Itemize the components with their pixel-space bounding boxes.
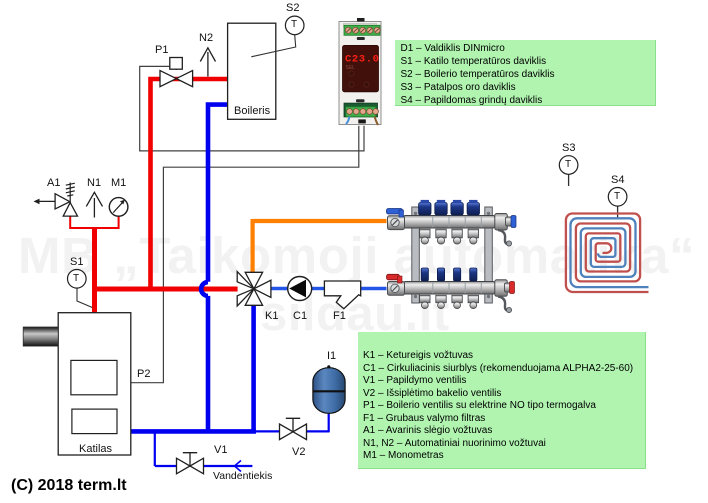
label V2 xyxy=(292,446,305,458)
pipe blue thin V1 water feed branch xyxy=(155,433,253,466)
label K1 xyxy=(265,310,278,322)
valve P1 actuator head xyxy=(170,58,183,71)
pipe blue thin to V2 and expansion tank I1 xyxy=(256,411,329,433)
safety valve A1 xyxy=(55,194,77,216)
pipe blue Boileris return down xyxy=(201,102,227,431)
floor heating loop supply (red) xyxy=(566,213,649,292)
din clip top xyxy=(357,37,365,40)
text T in S4 xyxy=(614,191,620,202)
boiler door lower xyxy=(72,409,117,434)
manometer M1 xyxy=(109,198,128,217)
pipe blue K1 drop to bottom main xyxy=(251,304,256,432)
label P2 xyxy=(137,368,150,380)
pipe red P1 riser and run to Boileris xyxy=(148,79,227,291)
sensor S1 xyxy=(68,270,87,289)
wire sensor S1 to pipe xyxy=(77,288,92,307)
label Katilas xyxy=(79,443,112,455)
display panel xyxy=(343,45,379,91)
svg-text:C23.0: C23.0 xyxy=(345,54,380,66)
right end cap / vent (top) xyxy=(495,214,516,247)
wire sensor S4 stem xyxy=(617,206,619,218)
label A1 xyxy=(47,177,60,189)
filter F1 xyxy=(324,281,360,309)
left inlet ball valve with blue handle xyxy=(387,209,405,230)
sensor S4 xyxy=(608,188,627,207)
sensor S3 xyxy=(559,156,578,175)
label I1 xyxy=(327,350,336,362)
label Boileris xyxy=(234,105,270,117)
pipe red main horizontal boiler to K1 xyxy=(95,287,238,292)
right end cap / drain (bottom) xyxy=(495,280,515,313)
arrow water inlet direction xyxy=(235,461,242,472)
valve actuators above bottom bar xyxy=(421,268,477,281)
valve P1 body xyxy=(160,71,193,87)
unions under top bar xyxy=(420,229,479,244)
terminal block bottom xyxy=(344,103,378,117)
boiler Katilas box xyxy=(58,313,131,455)
label S4 xyxy=(611,174,624,186)
wire P1 control line xyxy=(140,66,364,150)
safety valve A1 spring and outlet arrow xyxy=(39,183,75,203)
label M1 xyxy=(111,177,126,189)
legend components box xyxy=(358,332,646,469)
left mounting bracket xyxy=(412,207,420,303)
label N1 xyxy=(87,177,101,189)
expansion tank I1 xyxy=(313,365,345,413)
right mounting bracket xyxy=(485,207,493,303)
flowmeter caps on top bar xyxy=(419,200,480,215)
wire sensor S2 to Boileris xyxy=(251,35,295,57)
supply bar (top) xyxy=(404,216,496,229)
tank Boileris box xyxy=(228,23,276,119)
pump C1 xyxy=(288,277,312,301)
pipe blue K1 to pump C1 to filter F1 to manifold xyxy=(271,287,387,290)
vent N1 symbol xyxy=(86,192,102,217)
left return ball valve with red handle xyxy=(387,274,405,295)
label Vandentiekis xyxy=(213,470,272,482)
pipe blue bottom main from Katilas xyxy=(131,429,256,434)
return bar (bottom) xyxy=(404,282,496,295)
label S2 xyxy=(286,2,299,14)
legend sensors box xyxy=(395,40,656,106)
label S1 xyxy=(70,256,83,268)
vent N2 symbol xyxy=(200,48,215,77)
din clip bottom xyxy=(356,99,365,102)
manifold assembly xyxy=(387,200,517,313)
floor heating loop return (blue) xyxy=(570,218,648,287)
sensor S2 xyxy=(285,16,304,35)
valve V2 xyxy=(280,424,307,440)
valve V1 xyxy=(177,458,204,474)
label N2 xyxy=(199,32,213,44)
label P1 xyxy=(155,44,168,56)
label S3 xyxy=(562,142,575,154)
pipe orange mixed supply K1 to manifold xyxy=(253,219,387,272)
four-way valve K1 xyxy=(237,272,271,306)
svg-text:SEL: SEL xyxy=(346,65,356,71)
pipe red safety group manifold xyxy=(69,216,119,229)
text T in S3 xyxy=(565,159,571,170)
watermark line 2 xyxy=(260,290,450,339)
label V1 xyxy=(214,444,227,456)
wire sensor S3 stem xyxy=(568,174,570,186)
label C1 xyxy=(293,310,307,322)
label F1 xyxy=(333,310,346,322)
wire P2 control line xyxy=(131,126,359,383)
text T in S2 xyxy=(291,19,297,30)
pipe red boiler riser xyxy=(92,228,97,314)
watermark line 1 xyxy=(18,230,695,281)
controller D1 DINmicro module xyxy=(339,18,381,125)
controller wires xyxy=(346,117,350,125)
copyright text xyxy=(11,477,127,495)
terminal block top xyxy=(344,25,380,35)
boiler door upper xyxy=(71,360,117,394)
text T in S1 xyxy=(73,273,79,284)
